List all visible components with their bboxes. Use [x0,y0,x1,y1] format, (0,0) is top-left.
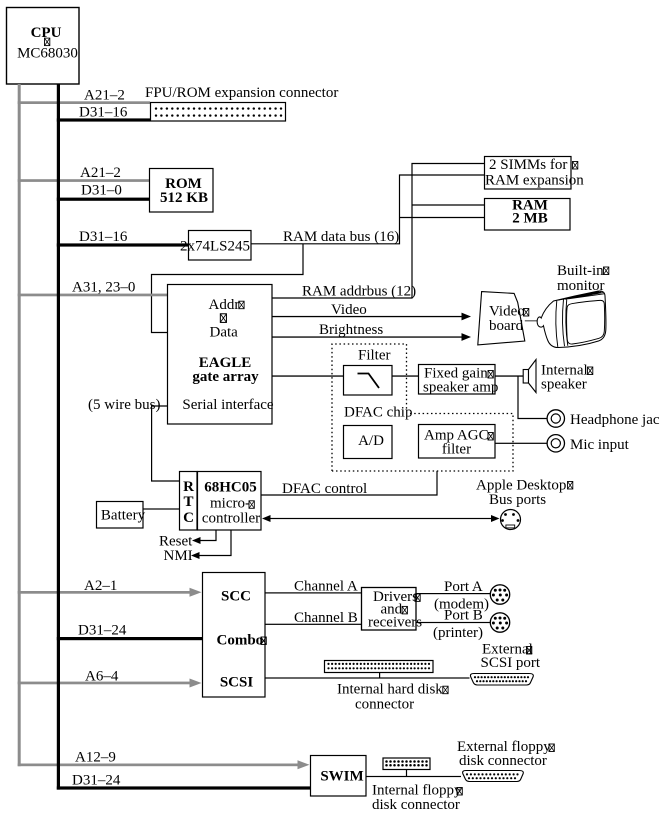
Port B wire [416,608,491,624]
gray address bus (vertical from CPU) [18,84,21,766]
wire to mic input [495,443,547,444]
headphone jack connector [547,410,660,428]
Port A (modem) label [434,597,489,613]
svg-text:SCSI: SCSI [220,675,254,691]
RAM 2 MB box [485,198,571,231]
wire D31-24 to SCC (black) [57,623,202,641]
68HC05 microcontroller box [198,472,262,531]
FPU/ROM expansion connector [145,85,338,121]
svg-text:A12–9: A12–9 [75,750,116,766]
svg-text:512 KB: 512 KB [160,190,208,206]
ADB port connector [501,510,521,530]
svg-text:T: T [183,494,193,510]
svg-text:A2–1: A2–1 [84,578,117,594]
svg-text:DFAC control: DFAC control [282,481,367,497]
wire D31-16 to 2x74LS245 (black) [57,229,188,247]
svg-text:receivers: receivers [368,615,422,631]
svg-text:D31–16: D31–16 [79,229,128,245]
wire EAGLE to Filter [272,375,343,376]
svg-text:Combo: Combo [217,633,264,649]
DFAC chip dotted outline [332,344,513,471]
Amp AGC filter box [419,425,496,459]
svg-text:CPU: CPU [31,25,62,41]
svg-text:A21–2: A21–2 [80,165,121,181]
SCC/Combo/SCSI box [203,573,267,698]
svg-text:68HC05: 68HC05 [204,480,257,496]
svg-text:Internal hard disk: Internal hard disk [337,682,443,698]
Port A connector [490,585,509,604]
svg-text:A21–2: A21–2 [84,88,125,104]
RTC box [180,472,198,531]
External SCSI port label [481,642,541,672]
wire amp to internal speaker [495,375,523,376]
Fixed gain speaker amp box [419,365,499,396]
wire A21-2 to FPU connector (gray) [18,88,150,105]
svg-text:controller: controller [202,511,260,527]
RAM addr bus wire [272,164,484,300]
svg-text:D31–0: D31–0 [81,183,122,199]
EAGLE gate array box [168,285,274,425]
wire A2-1 to SCC (gray arrow) [18,578,202,597]
external SCSI connector (D-sub) [470,674,533,686]
wire D31-0 to ROM (black) [57,183,149,201]
svg-text:board: board [489,318,524,334]
Channel A wire [265,579,363,595]
Reset wire [159,530,216,550]
svg-text:disk connector: disk connector [372,797,460,813]
RAM data tap to EAGLE [152,244,304,333]
wire A31, 23-0 to EAGLE (gray) [18,280,167,297]
svg-text:MC68030: MC68030 [17,46,78,62]
svg-text:Headphone jac: Headphone jac [570,412,660,428]
svg-text:speaker amp: speaker amp [423,380,498,396]
svg-text:Channel A: Channel A [294,579,358,595]
wire Filter to Fixed gain amp [392,375,418,376]
wire A21-2 to ROM (gray) [18,165,149,182]
svg-text:RAM addrbus (12): RAM addrbus (12) [302,284,416,300]
svg-text:DFAC chip: DFAC chip [344,405,412,421]
Channel B wire [265,610,363,626]
svg-text:2 MB: 2 MB [512,211,547,227]
svg-text:Battery: Battery [101,508,146,524]
svg-text:2 SIMMs for: 2 SIMMs for [489,157,567,173]
svg-text:Serial interface: Serial interface [182,397,274,413]
svg-text:(5 wire bus): (5 wire bus) [88,397,160,413]
5 wire bus from Serial interface to RTC [88,397,179,481]
Built-in monitor label [557,263,609,294]
external floppy connector (D-sub) [463,771,524,782]
svg-text:Bus ports: Bus ports [489,492,546,508]
svg-text:(printer): (printer) [433,625,483,641]
svg-text:SWIM: SWIM [320,769,363,785]
svg-text:Mic input: Mic input [570,437,630,453]
internal floppy disk connector [372,758,462,813]
svg-text:A/D: A/D [358,433,384,449]
wire to headphone jack [518,376,547,419]
svg-text:SCSI port: SCSI port [481,655,541,671]
svg-text:filter: filter [442,442,471,458]
svg-text:Port A: Port A [444,579,483,595]
SCSI wire [265,677,470,678]
svg-text:D31–24: D31–24 [72,773,121,789]
Brightness wire with arrow [272,322,471,341]
internal hard disk connector [325,661,449,713]
svg-text:Brightness: Brightness [319,322,383,338]
svg-text:Filter: Filter [358,348,391,364]
svg-text:FPU/ROM expansion connector: FPU/ROM expansion connector [145,85,338,101]
A/D box [344,426,393,459]
SWIM box [311,756,367,797]
svg-text:Port B: Port B [444,608,483,624]
svg-text:A6–4: A6–4 [85,669,119,685]
svg-text:Channel B: Channel B [294,610,358,626]
wire video board to monitor [525,320,537,321]
black data bus (vertical from CPU) [57,84,60,790]
svg-text:NMI: NMI [164,548,193,564]
svg-text:RAM expansion: RAM expansion [485,173,584,189]
svg-text:D31–24: D31–24 [78,623,127,639]
svg-text:Video: Video [331,302,367,318]
svg-text:connector: connector [355,697,414,713]
battery wire [143,508,179,509]
svg-text:disk connector: disk connector [459,753,547,769]
svg-text:micro-: micro- [210,496,250,512]
FPU connector pins [155,107,282,116]
mic input connector [547,435,629,453]
2x74LS245 buffer box [180,231,251,261]
Video wire with arrow [272,302,471,320]
Drivers and receivers box [362,588,423,631]
External floppy disk connector label [457,739,554,769]
Apple Desktop Bus ports label [476,478,573,509]
Port A wire [416,579,491,595]
NMI wire [164,530,232,564]
svg-text:C: C [183,510,194,526]
CPU box MC68030 [7,8,80,85]
Battery box [97,502,146,529]
wire A12-9 to SWIM (gray arrow) [18,750,310,770]
svg-text:RAM data bus (16): RAM data bus (16) [283,229,399,245]
svg-text:D31–16: D31–16 [79,105,128,121]
2 SIMMs for RAM expansion box [485,157,585,190]
svg-text:2x74LS245: 2x74LS245 [180,239,250,255]
svg-text:Addr: Addr [209,297,240,313]
DFAC control wire [261,471,437,497]
svg-text:A31, 23–0: A31, 23–0 [72,280,135,296]
Port B connector [490,613,509,632]
ROM 512 KB box [150,169,214,213]
svg-text:Built-in: Built-in [557,263,604,279]
svg-text:gate array: gate array [192,369,259,385]
wire D31-16 to FPU connector (black) [57,105,150,122]
wire A6-4 to SCSI (gray arrow) [18,669,202,688]
wire D31-24 to SWIM (black) [57,773,310,790]
svg-text:SCC: SCC [221,589,251,605]
internal speaker icon [523,360,593,393]
Built-in monitor CRT icon [537,291,606,347]
svg-text:R: R [183,479,194,495]
Video board [478,292,529,345]
svg-text:speaker: speaker [541,377,587,393]
Port B (printer) label [433,625,483,641]
svg-text:Data: Data [210,325,239,341]
ADB double arrow wire [262,515,500,522]
Filter box [344,348,393,396]
wire SWIM to floppy connectors [366,770,461,778]
RAM data bus wire [251,175,484,245]
